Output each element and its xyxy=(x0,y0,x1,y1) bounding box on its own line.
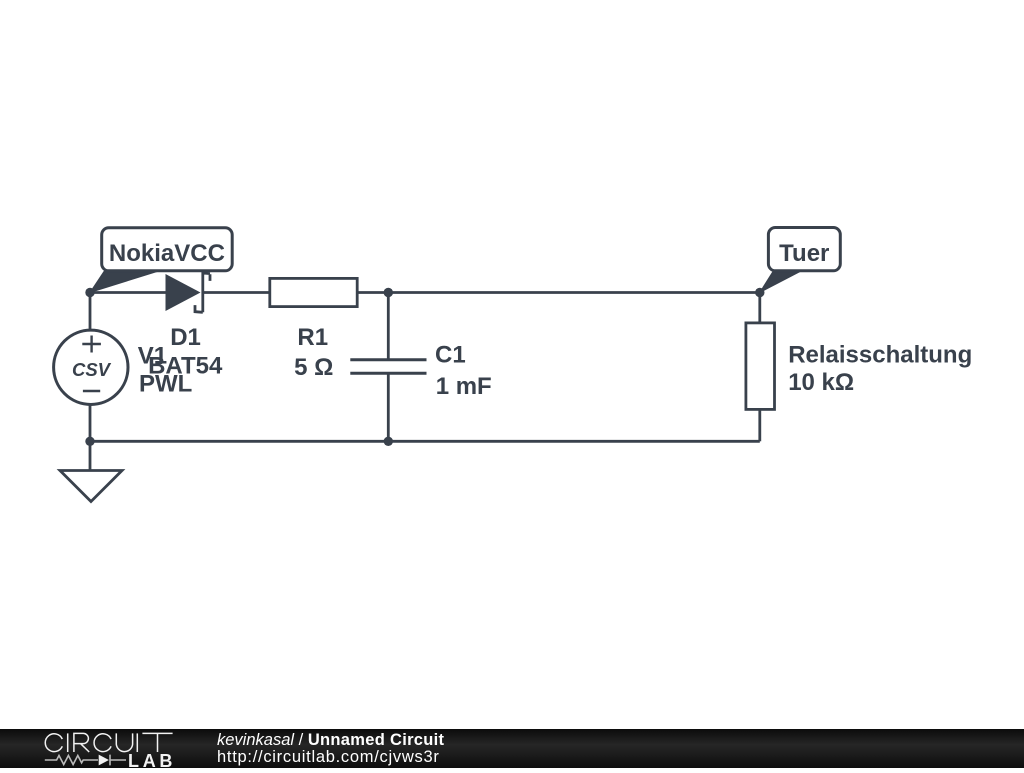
svg-text:BAT54: BAT54 xyxy=(148,353,223,380)
svg-text:D1: D1 xyxy=(170,324,201,351)
letter U xyxy=(116,733,132,751)
svg-text:CSV: CSV xyxy=(72,359,112,380)
node A (NokiaVCC junction) xyxy=(85,288,94,297)
wire: top rail node A to D1 anode xyxy=(90,291,166,294)
label R1 xyxy=(297,324,328,351)
svg-text:5 Ω: 5 Ω xyxy=(294,354,333,381)
logo diode xyxy=(99,755,109,766)
letter T xyxy=(142,733,172,752)
letter C xyxy=(45,734,62,752)
node C (Tuer junction) xyxy=(755,288,764,297)
node B (C1 top junction) xyxy=(384,288,393,297)
letter I xyxy=(67,733,69,752)
label PWL xyxy=(139,370,192,397)
label C1 xyxy=(435,342,466,369)
label V1 xyxy=(138,342,167,369)
resistor R2 (Relaisschaltung) xyxy=(746,323,775,410)
label 1 mF xyxy=(436,373,492,400)
net flag NokiaVCC xyxy=(90,228,232,293)
wire: ground stem xyxy=(89,441,92,470)
svg-text:10 kΩ: 10 kΩ xyxy=(788,369,854,396)
footer credit text xyxy=(217,732,444,768)
label BAT54 xyxy=(148,353,223,380)
CircuitLab logo xyxy=(0,729,200,768)
letter C2 xyxy=(94,734,111,752)
letter I2 xyxy=(136,733,138,752)
svg-text:LAB: LAB xyxy=(128,751,176,768)
logo resistor zigzag xyxy=(45,756,98,765)
wire: bottom rail node D to R2 bottom corner xyxy=(90,440,760,443)
label 5 Ω xyxy=(294,354,333,381)
svg-text:R1: R1 xyxy=(297,324,328,351)
node D (ground junction) xyxy=(85,437,94,446)
label D1 xyxy=(170,324,201,351)
wire: C1 bottom lead to bottom rail xyxy=(387,373,390,441)
node E (C1 bottom junction) xyxy=(384,437,393,446)
wire: C1 top lead from node B xyxy=(387,293,390,360)
svg-text:C1: C1 xyxy=(435,342,466,369)
footer bar xyxy=(0,729,1024,768)
voltage source V1 xyxy=(54,330,128,404)
svg-text:NokiaVCC: NokiaVCC xyxy=(109,240,225,267)
label 10 kΩ xyxy=(788,369,854,396)
wire: D1 cathode to R1 left lead xyxy=(203,291,270,294)
svg-text:Tuer: Tuer xyxy=(779,240,829,267)
capacitor C1 xyxy=(350,360,426,373)
resistor R1 xyxy=(270,278,357,306)
diode D1 (schottky) xyxy=(166,273,211,312)
wire: R2 bottom lead to bottom rail xyxy=(758,409,761,441)
wire: R1 right lead to node C (Tuer) xyxy=(357,291,760,294)
wire: V1 bottom lead to node D xyxy=(89,405,92,442)
svg-text:Relaisschaltung: Relaisschaltung xyxy=(788,342,972,369)
label Relaisschaltung xyxy=(788,342,972,369)
ground xyxy=(60,471,122,502)
letter R xyxy=(74,733,89,752)
net flag Tuer xyxy=(760,228,841,293)
svg-text:1 mF: 1 mF xyxy=(436,373,492,400)
wire: V1 top lead to node A xyxy=(89,293,92,331)
wire: node C to R2 top lead xyxy=(758,293,761,324)
